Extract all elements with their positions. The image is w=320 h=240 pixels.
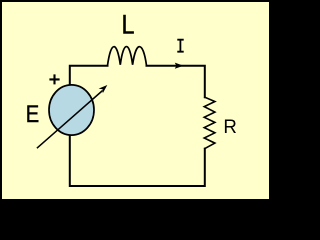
svg-text:E: E: [26, 101, 40, 128]
svg-text:L: L: [122, 9, 135, 39]
svg-text:R: R: [223, 116, 237, 138]
